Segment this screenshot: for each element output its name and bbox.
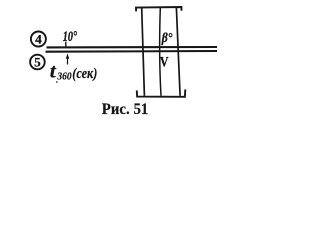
svg-text:t: t <box>50 60 58 82</box>
svg-text:10°: 10° <box>63 29 77 45</box>
node 5 (circled label) <box>30 55 45 70</box>
ink speck <box>56 81 58 83</box>
svg-text:β°: β° <box>161 31 173 46</box>
film strip bottom bar with end hooks <box>137 89 186 96</box>
film strip left edge <box>142 8 145 96</box>
film strip right edge <box>176 8 180 96</box>
film strip top bar with end hooks <box>136 7 182 11</box>
wire: upper horizontal rail <box>47 46 218 49</box>
svg-text:5: 5 <box>34 55 41 69</box>
value label t360(sek) <box>50 60 98 82</box>
tick under 10deg label <box>65 42 67 47</box>
svg-text:Рис. 51: Рис. 51 <box>102 101 149 118</box>
svg-text:V: V <box>160 55 169 71</box>
svg-text:(сек): (сек) <box>72 66 97 82</box>
svg-text:4: 4 <box>35 32 42 46</box>
svg-text:360: 360 <box>57 70 72 82</box>
node 4 (circled label) <box>31 32 46 47</box>
arrow up to rail <box>66 53 69 64</box>
wire: lower horizontal rail <box>46 50 218 53</box>
film strip middle line <box>160 8 161 96</box>
